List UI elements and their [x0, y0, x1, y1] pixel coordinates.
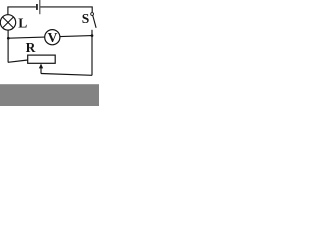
lamp L — [0, 15, 15, 30]
rheostat wiper arrow — [39, 64, 43, 69]
wire middle right (voltmeter to right junction) — [60, 36, 92, 37]
wire lamp to junction and down to bottom-left corner — [7, 30, 9, 62]
voltmeter V — [45, 30, 60, 45]
switch S pivot — [91, 13, 94, 16]
wire middle left (junction to voltmeter) — [8, 37, 45, 38]
svg-text:L: L — [18, 15, 27, 30]
node junction left — [7, 37, 10, 40]
wire right vertical — [91, 30, 93, 76]
svg-text:V: V — [48, 30, 58, 45]
wire bottom-left into rheostat — [8, 60, 28, 62]
svg-text:S: S — [82, 11, 90, 26]
node junction right — [91, 34, 94, 37]
rheostat R body — [28, 55, 56, 63]
battery B1 positive plate — [38, 0, 41, 14]
switch S blade — [93, 15, 96, 27]
battery B1 negative plate — [36, 4, 38, 10]
wire top-left — [8, 7, 36, 15]
wire bottom — [41, 74, 92, 76]
svg-text:R: R — [26, 40, 36, 55]
wire top-right — [40, 7, 92, 12]
